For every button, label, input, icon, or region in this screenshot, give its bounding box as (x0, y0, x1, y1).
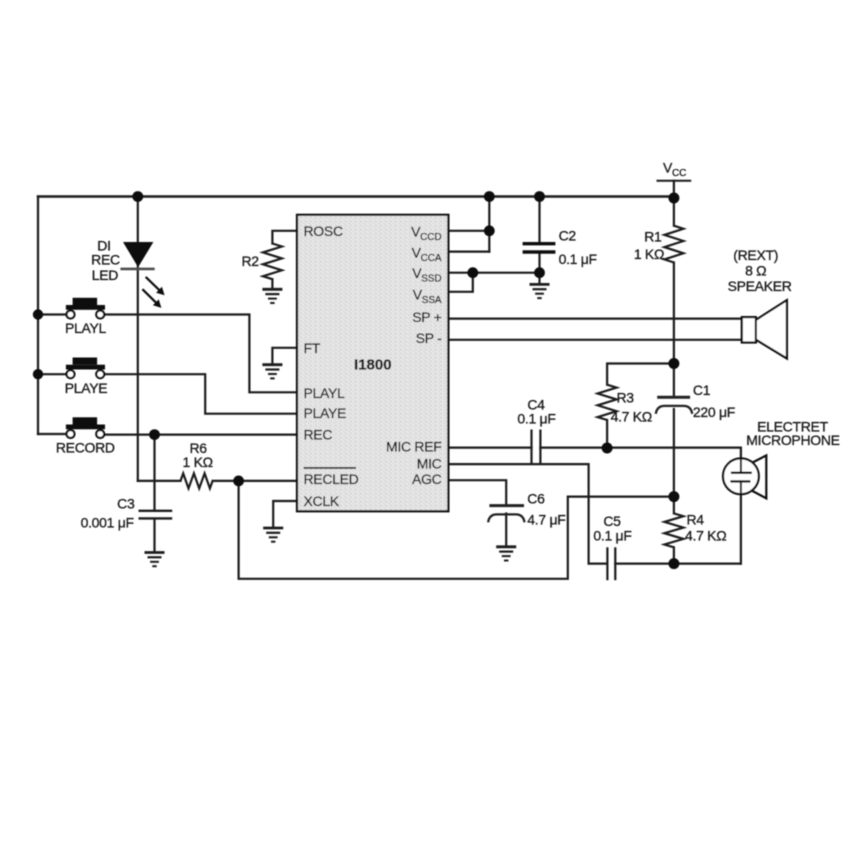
svg-text:MICROPHONE: MICROPHONE (746, 432, 839, 448)
svg-text:R2: R2 (241, 253, 259, 269)
svg-text:PLAYL: PLAYL (65, 320, 107, 336)
wire left rail (37, 197, 39, 435)
wire R4 top lead (673, 497, 675, 514)
svg-text:SPEAKER: SPEAKER (728, 278, 792, 294)
ground for R2 (262, 289, 282, 303)
svg-text:0.1 μF: 0.1 μF (559, 251, 597, 267)
ground for C3 (145, 553, 165, 567)
wire mic bottom drop (740, 494, 742, 563)
capacitor C1 polarized (656, 397, 692, 414)
node VSSD-VSSA junction (467, 267, 478, 278)
ground for XCLK (263, 528, 283, 542)
node VCCD pin junction (484, 225, 495, 236)
svg-text:PLAYE: PLAYE (304, 405, 347, 421)
svg-text:REC: REC (304, 427, 333, 443)
junction node dots (33, 191, 680, 569)
wire C3 drop (153, 435, 155, 510)
resistor R6 (181, 473, 213, 488)
svg-text:220 μF: 220 μF (693, 404, 735, 420)
wire MIC row (448, 464, 607, 563)
wire SP+ line (448, 318, 741, 320)
node R4 bottom junction (668, 558, 679, 569)
wire C3 stem to ground (153, 519, 155, 552)
node R6-RECLED junction (233, 476, 244, 487)
svg-text:4.7 KΩ: 4.7 KΩ (611, 409, 652, 425)
wire VCCA pin (448, 251, 489, 253)
svg-text:FT: FT (304, 340, 321, 356)
svg-text:R3: R3 (617, 390, 635, 406)
wire PLAYL right lead to IC (104, 315, 297, 393)
node C2 rail junction (534, 191, 545, 202)
svg-text:R4: R4 (687, 512, 705, 528)
wire R6 left lead (138, 480, 181, 482)
svg-text:RECLED: RECLED (304, 471, 359, 487)
wire AGC to C6 (448, 480, 506, 504)
wire RECLED bottom loop (239, 481, 674, 579)
svg-text:1 KΩ: 1 KΩ (183, 454, 213, 470)
svg-text:4.7 μF: 4.7 μF (527, 511, 565, 527)
svg-text:REC: REC (91, 252, 120, 268)
svg-text:SP -: SP - (416, 330, 442, 346)
wire SP- line (448, 339, 741, 341)
wire PLAYL left lead (38, 313, 66, 315)
capacitor C3 (139, 511, 173, 519)
capacitor C5 (607, 547, 615, 580)
wire R6 right lead to RECLED pin (213, 480, 297, 482)
wire R3 branch (607, 364, 674, 385)
svg-text:LED: LED (92, 267, 119, 283)
capacitor C6 polarized (488, 506, 524, 523)
electret microphone MK1 (723, 455, 766, 498)
node LED top junction (132, 191, 143, 202)
capacitor C4 (532, 430, 541, 465)
wire C6 stem to ground (505, 514, 507, 547)
node R3-MICREF junction (602, 443, 613, 454)
node VCCD rail junction (484, 191, 495, 202)
resistor R2 (263, 244, 282, 280)
node PLAYE rail junction (33, 369, 43, 379)
node REC-C3 junction (149, 429, 160, 440)
svg-text:C1: C1 (693, 382, 711, 398)
wire XCLK to ground (273, 501, 297, 528)
wire R1 bottom to C1 junction (673, 263, 675, 364)
wire PLAYE right lead to IC (104, 374, 297, 414)
label RECLED overline (304, 467, 357, 469)
resistor R3 (598, 385, 617, 420)
node R1-R3 junction (668, 358, 679, 369)
wire top rail (38, 195, 674, 197)
svg-text:I1800: I1800 (354, 357, 392, 374)
capacitor C2 (523, 244, 556, 252)
wire R2 bottom lead (271, 279, 273, 289)
svg-text:SP +: SP + (412, 309, 441, 325)
svg-text:C6: C6 (527, 491, 545, 507)
ground for C6 (496, 547, 516, 561)
svg-text:0.1 μF: 0.1 μF (593, 528, 631, 544)
svg-text:(REXT): (REXT) (733, 247, 778, 263)
svg-text:RECORD: RECORD (56, 440, 115, 456)
wire R4 bottom lead (673, 547, 675, 563)
wire C2 bottom lead (538, 253, 540, 284)
wire C2 top lead (538, 197, 540, 243)
svg-text:1 KΩ: 1 KΩ (634, 246, 664, 262)
pushbutton PLAYL (66, 298, 105, 319)
wire LED branch vertical (137, 197, 139, 481)
speaker SPK1 (742, 300, 787, 358)
LED emission arrow 1 (146, 277, 165, 295)
wire Vcc stem (673, 181, 675, 198)
svg-text:C2: C2 (559, 228, 577, 244)
ground for FT (262, 365, 282, 379)
wire FT to ground (272, 348, 297, 365)
svg-text:ROSC: ROSC (304, 223, 343, 239)
pushbutton RECORD (66, 417, 105, 438)
wire VCCD pin (448, 230, 489, 232)
svg-text:MIC REF: MIC REF (386, 439, 441, 455)
wire RECORD left lead (38, 433, 66, 435)
wire bottom line C5 to mic (615, 562, 741, 564)
resistor R4 (664, 513, 683, 547)
node C1-R4 junction (668, 491, 679, 502)
wire C1 bottom lead (673, 409, 675, 497)
wire MIC REF row right of C4 to mic (540, 448, 741, 459)
svg-text:XCLK: XCLK (304, 493, 340, 509)
wire R3 bottom lead (606, 420, 608, 448)
wire VSSA pin (448, 273, 472, 292)
svg-text:PLAYE: PLAYE (65, 380, 108, 396)
wire C1 top lead (673, 364, 675, 396)
pushbutton PLAYE (66, 358, 105, 379)
node PLAYL rail junction (33, 309, 43, 319)
wire MIC REF row left of C4 (448, 447, 531, 449)
LED D1 triangle (120, 242, 164, 308)
svg-text:C3: C3 (117, 496, 135, 512)
LED cathode bar (120, 268, 154, 271)
Vcc power bar (657, 180, 692, 182)
LED emission arrow 2 (142, 289, 161, 308)
svg-text:8 Ω: 8 Ω (745, 262, 766, 278)
svg-text:AGC: AGC (412, 471, 442, 487)
IC U1 I1800 body (297, 215, 448, 512)
wire VSSD row (448, 272, 539, 274)
wire PLAYE left lead (38, 373, 66, 375)
wire ROSC to R2 (272, 231, 297, 244)
svg-text:MIC: MIC (417, 455, 442, 471)
resistor R1 (664, 226, 683, 263)
node C2 ground junction (534, 267, 545, 278)
svg-text:R1: R1 (644, 228, 662, 244)
svg-text:0.001 μF: 0.001 μF (81, 515, 134, 531)
wire R1 top lead (673, 198, 675, 226)
ground for C2 (530, 284, 550, 298)
svg-text:0.1 μF: 0.1 μF (517, 411, 555, 427)
node VCC rail junction (668, 193, 679, 204)
wire REC row to IC (104, 434, 297, 436)
svg-text:4.7 KΩ: 4.7 KΩ (685, 528, 726, 544)
wire VCCD/VCCA vertical (488, 197, 490, 252)
svg-text:PLAYL: PLAYL (304, 385, 346, 401)
